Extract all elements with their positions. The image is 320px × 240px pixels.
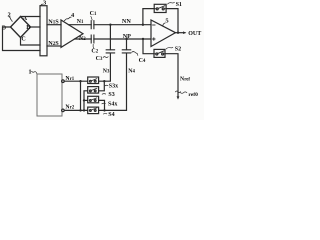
svg-text:N4: N4: [128, 68, 135, 74]
ref0 wiggle break: [176, 91, 181, 93]
switch S1 box: [154, 4, 166, 12]
svg-text:1: 1: [28, 68, 31, 75]
svg-text:Nr1: Nr1: [65, 76, 74, 82]
reference generator box 1: [37, 74, 62, 116]
svg-text:S4: S4: [108, 112, 114, 118]
S1 contacts and lever: [156, 8, 158, 10]
label S3x: [109, 84, 118, 90]
leader squiggle for C2: [92, 44, 95, 48]
S4x contacts and lever: [90, 100, 92, 102]
label C1: [90, 11, 97, 17]
node A label: [23, 16, 28, 22]
junction NP/S2: [142, 38, 144, 40]
wire NP branch down to C4: [126, 39, 128, 50]
S4 contacts and lever: [90, 110, 92, 112]
leader squiggle for S3x: [105, 84, 108, 87]
label NP: [123, 33, 131, 40]
S3 contacts and lever: [90, 90, 92, 92]
output wire with arrow: [176, 32, 185, 34]
wire N3 branch to S3: [99, 81, 105, 91]
svg-text:C4: C4: [139, 58, 146, 64]
capacitor C3: [106, 50, 114, 53]
leader squiggle for C1: [91, 17, 92, 20]
label 5: [165, 17, 169, 24]
label Nref: [180, 76, 190, 82]
wire Nr2 to S4: [64, 109, 87, 111]
svg-text:ref0: ref0: [188, 92, 198, 98]
wire N4 (C4 down to switch S4): [99, 53, 127, 110]
leader squiggle for C4: [132, 52, 138, 56]
terminal circle Nr2: [62, 109, 65, 112]
junction Nr2/Nr1-branch: [79, 109, 81, 111]
wire N1S: [47, 24, 61, 26]
svg-text:N2: N2: [79, 36, 86, 42]
switch S3x box: [88, 77, 99, 84]
wire NN rail (C1 to op-amp inverting input): [94, 24, 151, 26]
leader squiggle for ref0: [180, 92, 186, 93]
svg-text:OUT: OUT: [188, 31, 201, 37]
wire A to box3: [21, 16, 41, 18]
junction N3/S3 branch: [103, 80, 105, 82]
wire B to box3: [31, 26, 41, 28]
svg-text:N3: N3: [103, 68, 110, 74]
junction NN/C3: [109, 24, 111, 26]
label 4: [71, 12, 75, 19]
switch S4 box: [88, 107, 99, 114]
svg-text:C: C: [21, 37, 25, 43]
leader squiggle for 1: [32, 71, 37, 73]
leader squiggle for 4: [64, 17, 71, 20]
label C2: [91, 48, 98, 54]
wire S1 right to output: [166, 9, 178, 33]
output arrowhead: [183, 31, 186, 34]
node B label: [26, 25, 30, 31]
label C3: [96, 56, 103, 62]
wire Nr1 to S3x: [64, 80, 87, 82]
terminal circle Nr1: [62, 80, 65, 83]
wire NP rail (C2 to op-amp non-inverting input): [94, 38, 151, 40]
svg-text:S4x: S4x: [108, 101, 117, 107]
leader squiggle for S1: [168, 2, 175, 4]
ref0 terminal arrowhead: [177, 96, 180, 99]
svg-text:S2: S2: [175, 47, 181, 53]
label Nr1: [65, 76, 74, 82]
label ref0: [188, 92, 198, 98]
svg-text:C2: C2: [91, 48, 98, 54]
capacitor C2: [91, 35, 94, 43]
label OUT: [188, 31, 201, 37]
junction N4/S4x branch: [103, 109, 105, 111]
wire to ref0 terminal: [177, 93, 179, 97]
svg-text:S3x: S3x: [109, 84, 118, 90]
label S2: [175, 47, 181, 53]
leader squiggle for 3: [40, 4, 42, 6]
wire S1 left to inverting input: [143, 9, 154, 25]
junction NN/S1: [142, 24, 144, 26]
leader squiggle for C3: [103, 56, 108, 59]
differential amplifier 4: [61, 20, 83, 47]
svg-text:NN: NN: [122, 18, 131, 25]
wire D around left to box3: [3, 27, 41, 51]
label N2S: [48, 40, 59, 47]
label N1S: [48, 19, 59, 26]
leader squiggle for S4: [103, 112, 106, 115]
wire N2 (amp output to C2): [75, 38, 92, 40]
svg-text:N1S: N1S: [48, 19, 59, 26]
multiplexer box 3: [40, 6, 47, 56]
S2 contacts and lever: [156, 53, 158, 55]
wire N3 (C3 down to switch S3x): [99, 53, 111, 81]
svg-text:N1: N1: [77, 19, 84, 25]
wire Nr1 branch down to S4 rail: [80, 81, 82, 110]
label 3: [43, 0, 47, 6]
leader squiggle for 5: [163, 23, 165, 26]
junction Nr1 branch: [79, 80, 81, 82]
capacitor C1: [91, 21, 94, 29]
wire Nr2 branch up to S3: [84, 91, 88, 111]
wire C down to box3: [21, 38, 41, 46]
label S3: [108, 92, 114, 98]
wire N1 (amp output to C1): [69, 24, 92, 26]
op-amp minus sign: [153, 24, 155, 26]
leader squiggle for S2: [166, 47, 173, 49]
label N4: [128, 68, 135, 74]
wire N2S: [47, 45, 61, 47]
S3x contacts and lever: [90, 80, 92, 82]
junction NP/C4: [125, 38, 127, 40]
leader squiggle for 2: [9, 17, 12, 21]
svg-text:Nref: Nref: [180, 76, 190, 82]
switch S4x box: [88, 96, 99, 103]
svg-text:N2S: N2S: [48, 40, 59, 47]
svg-text:B: B: [26, 25, 30, 31]
label S4: [108, 112, 114, 118]
wire NN branch down to C3: [109, 25, 111, 50]
label 2: [8, 12, 11, 19]
label Nr2: [65, 104, 74, 110]
junction output/S1 feedback: [177, 32, 179, 34]
wire S2 right down to ref0: [165, 54, 178, 92]
label 1: [28, 68, 31, 75]
node D label: [2, 26, 7, 32]
leader squiggle for S3: [102, 93, 105, 96]
switch S2 box: [154, 49, 165, 57]
label S1: [176, 2, 182, 8]
node C label: [21, 37, 25, 43]
svg-text:C3: C3: [96, 56, 103, 62]
svg-text:S1: S1: [176, 2, 182, 8]
junction S4x branch: [83, 99, 85, 101]
switch S3 box: [88, 87, 99, 94]
op-amp 5: [151, 20, 176, 47]
label N3: [103, 68, 110, 74]
wire S2 left to non-inverting input: [143, 39, 154, 54]
svg-text:S3: S3: [108, 92, 114, 98]
label N2: [79, 36, 86, 42]
op-amp plus sign: [153, 38, 155, 40]
wire N4 branch to S4x: [99, 100, 105, 110]
label NN: [122, 18, 131, 25]
junction Nr2/S3 branch: [83, 109, 85, 111]
label N1: [77, 19, 84, 25]
label C4: [139, 58, 146, 64]
wire branch to S4x: [84, 99, 88, 101]
leader squiggle for S4x: [102, 102, 105, 105]
label S4x: [108, 101, 117, 107]
capacitor C4: [122, 50, 130, 53]
svg-text:Nr2: Nr2: [65, 104, 74, 110]
bridge sensor 2 (diamond): [11, 17, 31, 38]
